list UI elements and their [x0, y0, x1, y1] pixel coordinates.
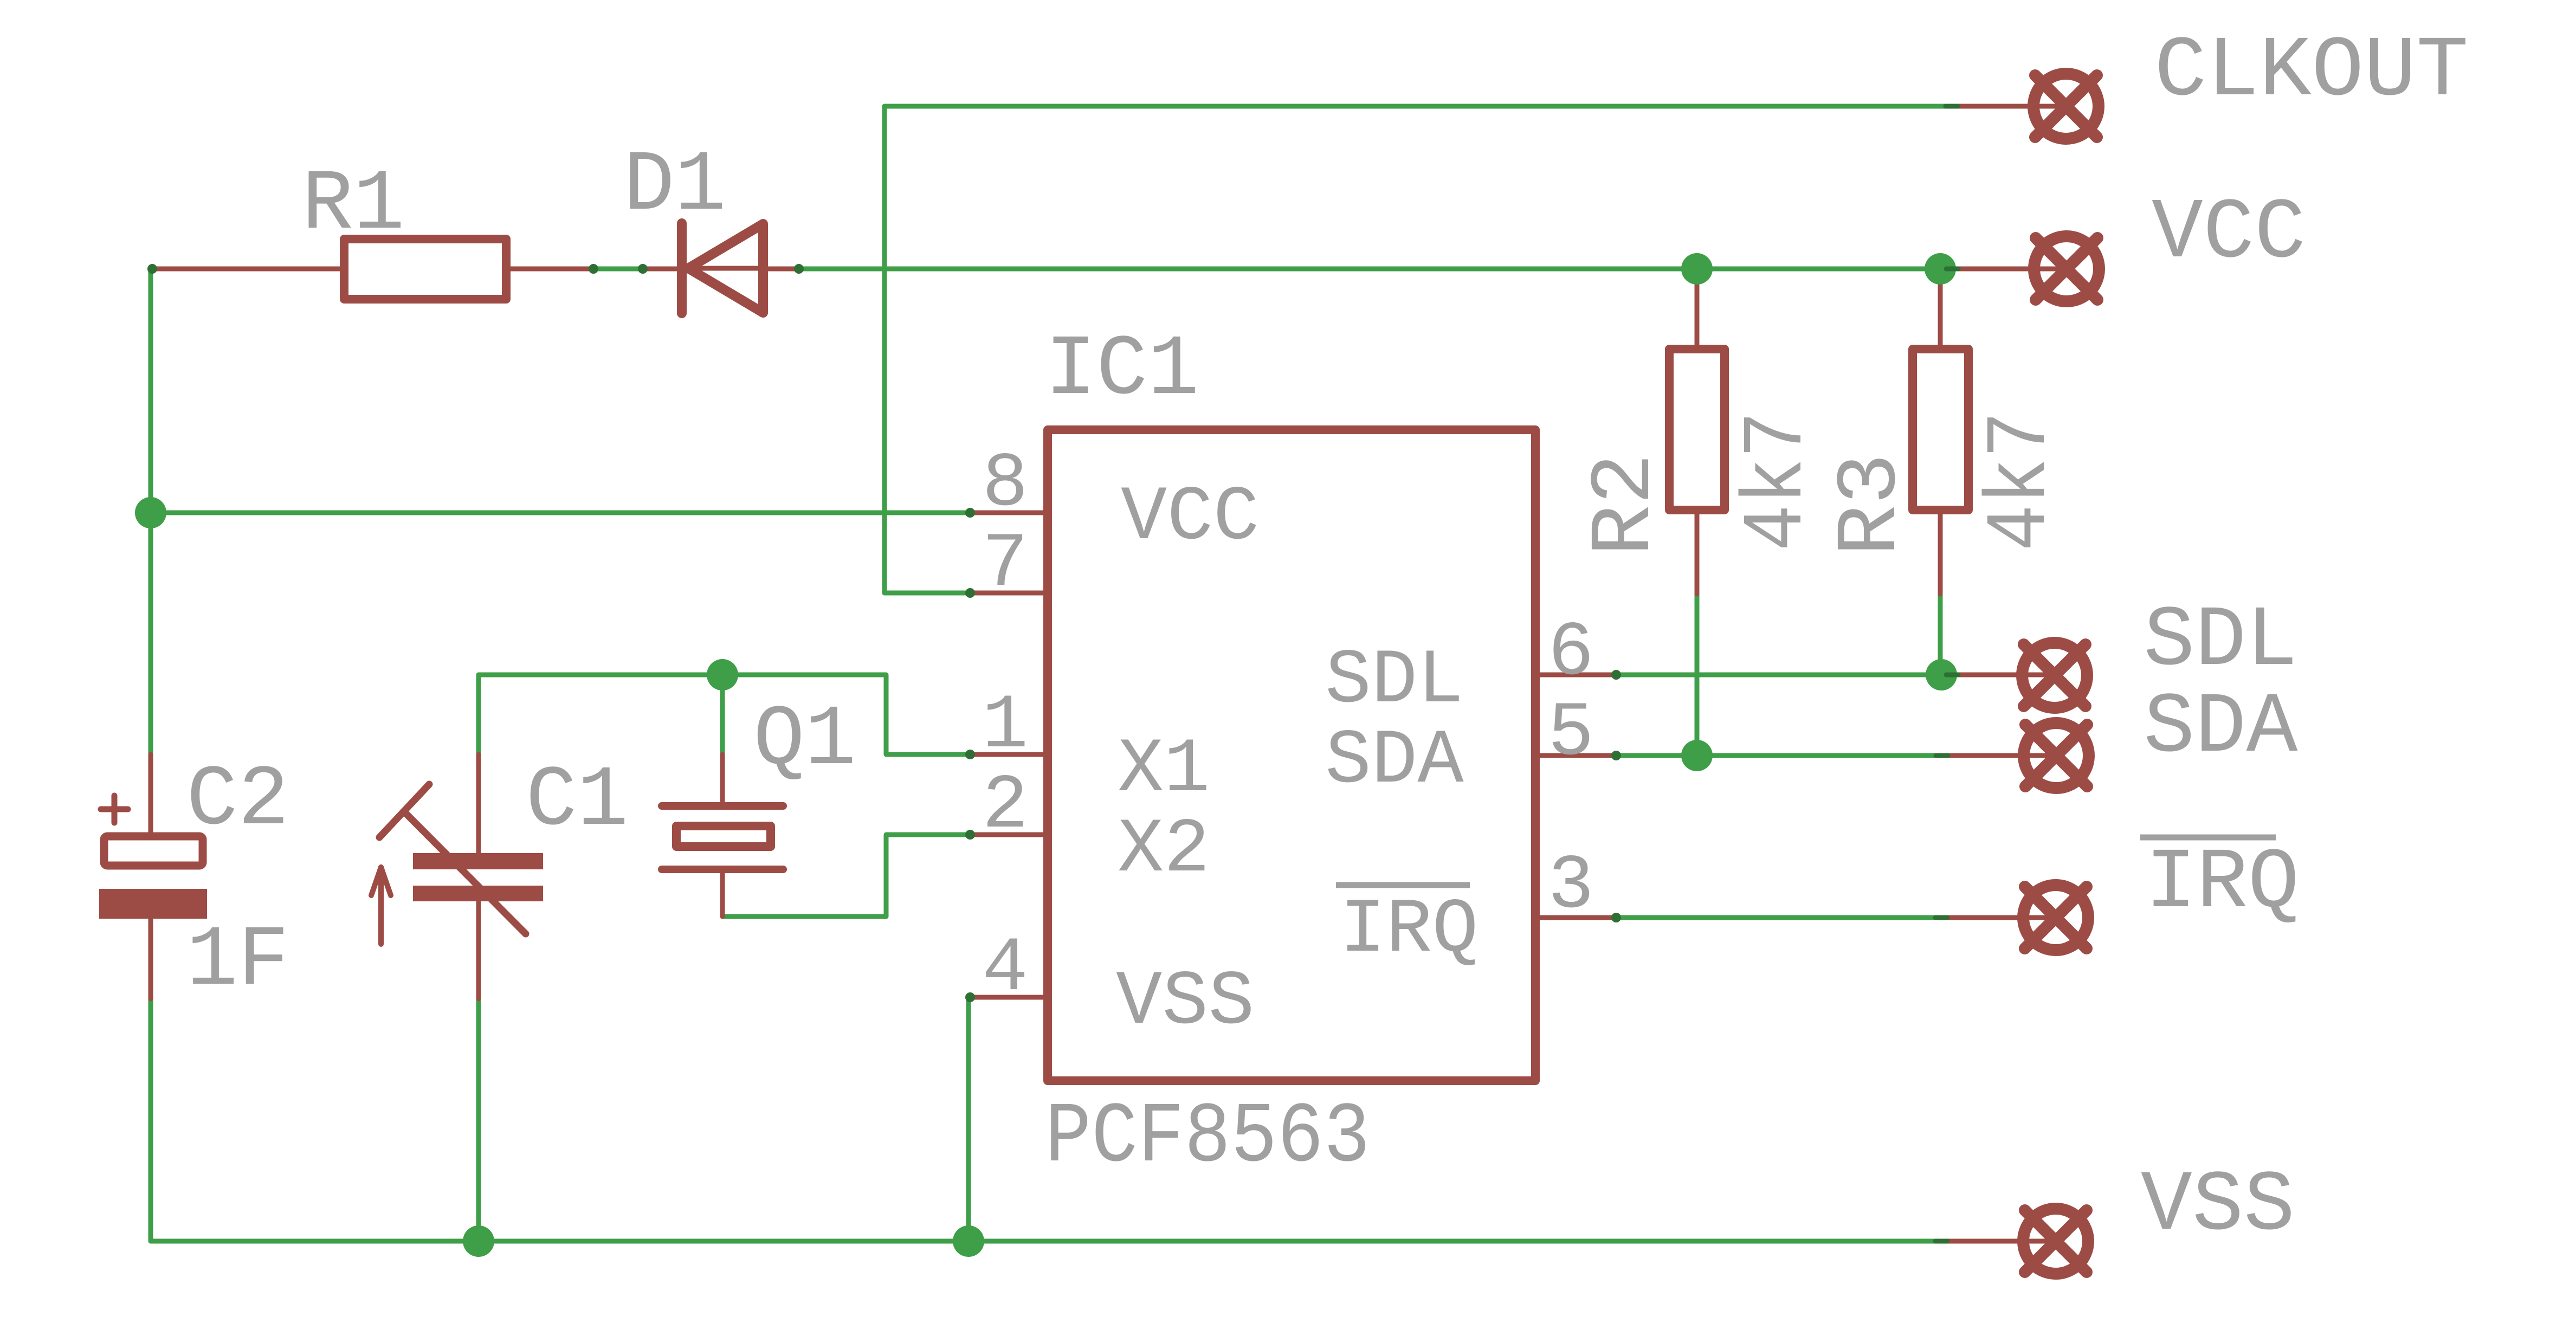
- wire SDL net: [1616, 673, 1958, 677]
- pad CLKOUT: [2033, 74, 2099, 139]
- wire Q1 top: [720, 675, 725, 754]
- wire SDA net: [1616, 753, 1948, 758]
- svg-text:C2: C2: [186, 752, 289, 849]
- svg-text:SDL: SDL: [2144, 593, 2297, 690]
- svg-text:R2: R2: [1577, 453, 1674, 556]
- junction pin8 tee: [135, 497, 166, 528]
- junction C1 bottom rail: [463, 1225, 494, 1257]
- wire VCC top rail: [151, 267, 1958, 272]
- junction R3 top: [1925, 253, 1956, 285]
- svg-text:6: 6: [1548, 610, 1594, 697]
- svg-text:3: 3: [1548, 843, 1594, 930]
- pad SDA: [2024, 723, 2089, 788]
- svg-text:1F: 1F: [186, 913, 289, 1010]
- pad SDL: [2022, 643, 2087, 708]
- svg-text:IRQ: IRQ: [1340, 887, 1479, 974]
- svg-text:8: 8: [982, 441, 1028, 528]
- pad stub SDA: [1948, 753, 2056, 758]
- svg-text:4k7: 4k7: [1729, 411, 1826, 551]
- wire pin8 net: [151, 511, 970, 515]
- svg-text:VSS: VSS: [1116, 959, 1255, 1046]
- wire bottom VSS rail: [151, 1239, 1947, 1244]
- svg-text:PCF8563: PCF8563: [1045, 1089, 1370, 1186]
- wire C2 bottom: [149, 999, 153, 1241]
- wire C1 bottom: [476, 999, 481, 1241]
- svg-text:SDL: SDL: [1325, 637, 1464, 725]
- diode D1: [643, 223, 799, 313]
- capacitor C2 (electrolytic 1F): [99, 754, 207, 999]
- svg-text:VCC: VCC: [1121, 474, 1260, 562]
- svg-text:VCC: VCC: [2152, 185, 2306, 282]
- pad stub VSS: [1947, 1239, 2056, 1244]
- wire X2 net: [722, 835, 970, 917]
- svg-text:1: 1: [982, 682, 1028, 770]
- junction R2 top: [1681, 253, 1713, 285]
- svg-text:CLKOUT: CLKOUT: [2154, 23, 2469, 120]
- IC pin 7 stub: [969, 591, 1043, 596]
- IC pin 5 stub: [1540, 753, 1616, 758]
- pad stub SDL: [1958, 673, 2055, 677]
- IC pin 2 stub: [969, 832, 1043, 837]
- wire left vertical rail: [149, 269, 153, 754]
- IC U1 PCF8563 box: [1048, 430, 1535, 1081]
- IC pin 4 stub: [969, 995, 1043, 1000]
- svg-text:Q1: Q1: [753, 692, 856, 789]
- wire CLKOUT vertical: [882, 106, 887, 593]
- svg-text:4: 4: [982, 925, 1028, 1012]
- resistor R2: [1669, 269, 1725, 594]
- junction Q1 top rail: [707, 659, 738, 690]
- svg-text:R3: R3: [1823, 453, 1920, 556]
- wire R3 bottom net: [1938, 594, 1943, 675]
- junction pin4 bottom rail: [953, 1225, 984, 1257]
- wire R2 bottom net: [1695, 594, 1700, 756]
- pad stub IRQ: [1947, 915, 2056, 920]
- wire pin4 vertical: [966, 997, 971, 1241]
- capacitor C1 (trimmer): [371, 754, 543, 999]
- svg-text:IRQ: IRQ: [2145, 835, 2299, 932]
- resistor R3: [1913, 269, 1968, 594]
- resistor R1: [151, 239, 593, 299]
- svg-text:R1: R1: [302, 157, 405, 254]
- pad stub CLKOUT: [1958, 104, 2066, 109]
- crystal Q1: [662, 754, 783, 917]
- pad stub VCC: [1958, 267, 2067, 272]
- wire IRQ net: [1616, 915, 1947, 920]
- svg-text:X1: X1: [1118, 726, 1210, 814]
- svg-text:5: 5: [1548, 690, 1594, 777]
- svg-text:C1: C1: [526, 753, 629, 850]
- wire pin7 net: [885, 591, 970, 596]
- IC pin 1 stub: [969, 752, 1043, 757]
- svg-text:SDA: SDA: [1325, 718, 1464, 805]
- net end dots: [147, 106, 1958, 1241]
- svg-text:2: 2: [982, 763, 1028, 850]
- wire C1 top: [476, 675, 481, 754]
- pad VCC: [2034, 236, 2099, 301]
- svg-text:SDA: SDA: [2144, 680, 2298, 777]
- pad VSS: [2023, 1209, 2088, 1274]
- wire CLKOUT horizontal: [885, 104, 1958, 109]
- wire X1 top rail: [479, 675, 970, 754]
- svg-text:7: 7: [982, 521, 1028, 608]
- junction R2 bottom SDA: [1681, 740, 1713, 771]
- svg-text:D1: D1: [623, 138, 726, 235]
- junction R3 bottom SDL: [1926, 659, 1957, 690]
- IC pin 3 stub: [1540, 915, 1616, 920]
- svg-text:X2: X2: [1118, 806, 1210, 894]
- svg-text:4k7: 4k7: [1973, 411, 2070, 551]
- IC pin 8 stub: [969, 511, 1043, 515]
- svg-text:IC1: IC1: [1045, 322, 1199, 419]
- pad IRQ: [2023, 885, 2088, 950]
- IC pin 6 stub: [1540, 673, 1616, 677]
- svg-text:VSS: VSS: [2141, 1158, 2295, 1255]
